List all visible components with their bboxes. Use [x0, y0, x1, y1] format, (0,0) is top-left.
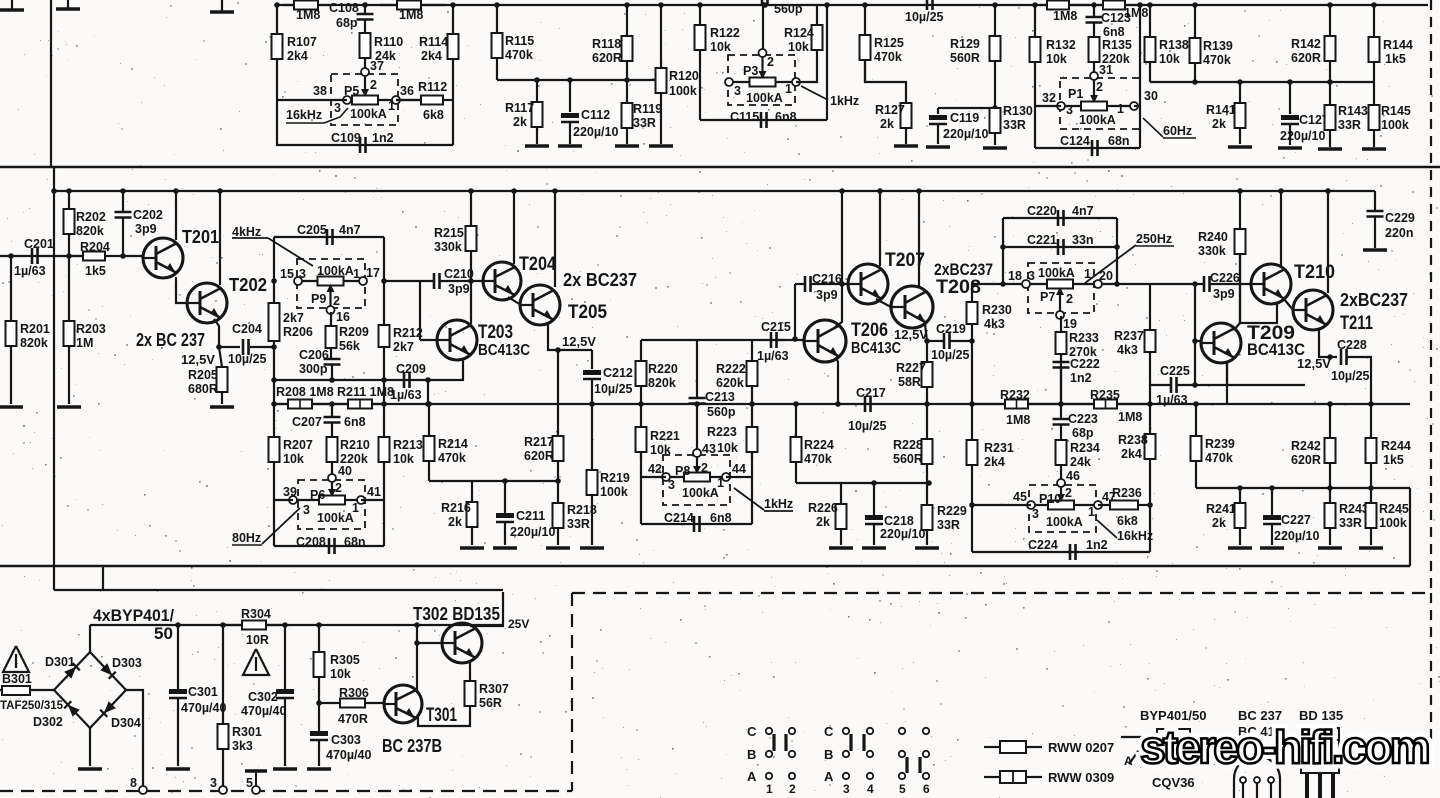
junction [1137, 2, 1143, 8]
junction [589, 401, 595, 407]
ground [915, 546, 939, 550]
svg-text:2: 2 [333, 294, 340, 308]
svg-text:A: A [747, 769, 757, 784]
capacitor C303 [310, 731, 371, 762]
ground [829, 546, 853, 550]
wire R226 col [840, 483, 842, 504]
svg-text:R212: R212 [393, 326, 423, 340]
potentiometer P3 [725, 49, 800, 105]
wire C227 gnd [1271, 524, 1273, 545]
junction [220, 622, 226, 628]
resistor R236 6k8 [1098, 486, 1150, 528]
junction [1147, 2, 1153, 8]
top feed wire 3 [221, 0, 223, 11]
svg-text:RWW 0207: RWW 0207 [1048, 740, 1114, 755]
wire P10 left rail low [971, 505, 973, 552]
junction [534, 77, 540, 83]
svg-text:3p9: 3p9 [135, 222, 157, 236]
svg-text:10k: 10k [330, 667, 351, 681]
label T302 BD135 [413, 604, 500, 624]
resistor R229 33R [922, 483, 967, 545]
resistor R222 620k [716, 340, 758, 404]
wire T203 emitter [428, 358, 463, 380]
power section top border [54, 589, 503, 591]
svg-text:R235: R235 [1090, 388, 1120, 402]
svg-text:16kHz: 16kHz [286, 108, 322, 122]
svg-text:470k: 470k [804, 452, 832, 466]
junction [877, 188, 883, 194]
potentiometer P7 [1008, 263, 1113, 331]
svg-text:2k7: 2k7 [393, 340, 414, 354]
capacitor C127 [1280, 113, 1329, 143]
svg-text:37: 37 [370, 59, 384, 73]
resistor R238 2k4 [1118, 404, 1156, 461]
svg-text:C205: C205 [297, 223, 327, 237]
junction [567, 77, 573, 83]
junction [282, 622, 288, 628]
svg-text:56k: 56k [339, 339, 360, 353]
svg-text:R201: R201 [20, 322, 50, 336]
svg-text:R210: R210 [340, 438, 370, 452]
ground [546, 546, 570, 550]
wire C218 gnd [873, 524, 875, 545]
resistor R119 33R [622, 102, 663, 144]
svg-text:R243: R243 [1339, 502, 1369, 516]
transistor T301 [384, 685, 457, 726]
svg-text:560p: 560p [774, 2, 803, 16]
resistor R127 2k [875, 103, 912, 144]
junction [697, 2, 703, 8]
junction [992, 2, 998, 8]
capacitor C213 [689, 390, 736, 419]
svg-text:68n: 68n [1108, 134, 1130, 148]
capacitor C214 [664, 511, 732, 532]
wire C119 gnd [937, 124, 939, 144]
capacitor C108 [329, 1, 374, 30]
label D303 [112, 656, 142, 670]
junction [1193, 401, 1199, 407]
capacitor C109 [331, 131, 394, 153]
svg-text:R219: R219 [600, 471, 630, 485]
svg-text:4kHz: 4kHz [232, 225, 261, 239]
svg-text:R207: R207 [283, 438, 313, 452]
wire C223 stem [1060, 404, 1062, 419]
svg-text:R223: R223 [707, 425, 737, 439]
svg-text:C214: C214 [664, 511, 694, 525]
svg-text:R227: R227 [896, 361, 926, 375]
transistor T209 [1201, 323, 1305, 363]
svg-text:620R: 620R [592, 51, 622, 65]
svg-text:470µ/40: 470µ/40 [181, 701, 226, 715]
svg-text:220n: 220n [1385, 226, 1414, 240]
transistor T302 [442, 623, 482, 663]
svg-text:R135: R135 [1102, 38, 1132, 52]
svg-text:24k: 24k [1070, 455, 1091, 469]
wire C220 rail right [1116, 218, 1118, 284]
resistor R208 1M8 [274, 385, 334, 409]
svg-text:B301: B301 [2, 672, 32, 686]
wire C123 to R135 [1093, 23, 1095, 37]
resistor R245 100k [1366, 488, 1409, 545]
svg-text:33n: 33n [1072, 233, 1094, 247]
svg-text:C303: C303 [331, 733, 361, 747]
ground [307, 767, 331, 771]
resistor R306 470R [319, 686, 384, 726]
ground [56, 7, 80, 11]
svg-text:R130: R130 [1003, 104, 1033, 118]
svg-text:100kA: 100kA [317, 264, 354, 278]
wire P3 right rail [826, 5, 828, 120]
resistor R305 10k [314, 625, 360, 703]
svg-text:R306: R306 [339, 686, 369, 700]
wire R301 col [222, 625, 224, 724]
wire P7 left rail [971, 284, 973, 404]
wire C202 bottom [122, 218, 124, 256]
svg-text:stereo-hifi.com: stereo-hifi.com [1140, 721, 1429, 773]
svg-text:100kA: 100kA [1079, 113, 1116, 127]
junction [658, 2, 664, 8]
capacitor C114 560p [762, 0, 803, 16]
wire C206 bottom [331, 365, 333, 380]
svg-text:19: 19 [1063, 317, 1077, 331]
resistor R117 2k [505, 101, 543, 144]
wire T211 emitter [1319, 329, 1337, 357]
ground [1359, 546, 1383, 550]
resistor R237 4k3 [1114, 284, 1156, 404]
transistor T207 [848, 250, 925, 304]
svg-text:5: 5 [899, 782, 906, 796]
capacitor C223 [1053, 412, 1098, 440]
wire P5 right [396, 99, 420, 101]
wire T211 collector [1327, 191, 1329, 293]
junction [271, 401, 277, 407]
resistor R205 680R [188, 367, 228, 404]
capacitor C115 6n8 [730, 110, 797, 128]
wire C212 bottom [591, 379, 593, 404]
svg-text:C217: C217 [856, 386, 886, 400]
transistor T208 [891, 277, 981, 328]
svg-text:T206: T206 [851, 320, 888, 341]
wire T302 collector [470, 592, 503, 626]
resistor R134 1M8 [1098, 1, 1148, 21]
capacitor C225 [1156, 364, 1190, 407]
svg-text:100kA: 100kA [317, 511, 354, 525]
transistor T210 [1251, 262, 1335, 304]
junction [555, 478, 561, 484]
label 16kHz [286, 108, 348, 123]
junction [216, 344, 222, 350]
svg-text:2x BC 237: 2x BC 237 [136, 330, 205, 350]
junction [839, 188, 845, 194]
ground [493, 546, 517, 550]
resistor R118 620R [592, 5, 633, 80]
svg-text:1µ/63: 1µ/63 [757, 349, 789, 363]
resistor R215 330k [434, 191, 477, 254]
wire P9 right rail [383, 237, 385, 404]
junction [624, 77, 630, 83]
wire output sub-bus [497, 79, 656, 81]
potentiometer P1 [1042, 72, 1158, 129]
potentiometer P5 [313, 68, 414, 125]
svg-text:12,5V: 12,5V [181, 352, 215, 367]
junction [969, 502, 975, 508]
capacitor C227 [1263, 513, 1319, 543]
svg-text:620R: 620R [524, 449, 554, 463]
svg-text:10µ/25: 10µ/25 [228, 352, 267, 366]
bridge rectifier 4xBYP401/50 [54, 652, 126, 728]
junction [66, 188, 72, 194]
svg-text:1n2: 1n2 [1070, 371, 1092, 385]
transistor T203 [437, 320, 530, 360]
junction [871, 480, 877, 486]
junction [274, 2, 280, 8]
svg-text:3: 3 [843, 782, 850, 796]
svg-text:R217: R217 [524, 435, 554, 449]
svg-text:A: A [824, 769, 834, 784]
capacitor C204 [228, 322, 267, 366]
label 12.5V input [181, 352, 215, 367]
svg-text:33R: 33R [1338, 118, 1361, 132]
wire C207 stem [331, 404, 333, 417]
svg-text:50: 50 [154, 624, 173, 643]
svg-text:2: 2 [1065, 486, 1072, 500]
wire T302 base [417, 642, 443, 644]
wire C210 lead [384, 280, 434, 282]
svg-text:C302: C302 [248, 690, 278, 704]
junction [824, 2, 830, 8]
svg-text:2xBC237: 2xBC237 [1340, 290, 1408, 310]
svg-text:R232: R232 [1000, 388, 1030, 402]
svg-text:3: 3 [1032, 507, 1039, 521]
junction [1269, 485, 1275, 491]
svg-text:100kA: 100kA [1046, 515, 1083, 529]
svg-text:R115: R115 [505, 34, 534, 48]
mid feedback bus [274, 403, 1410, 405]
resistor R139 470k [1190, 5, 1233, 82]
wire T202 emitter [214, 319, 219, 347]
svg-text:300p: 300p [299, 362, 328, 376]
junction [749, 401, 755, 407]
svg-text:R202: R202 [76, 210, 106, 224]
capacitor C224 [1028, 538, 1108, 560]
legend BD135 package [1299, 708, 1343, 798]
junction [1287, 79, 1293, 85]
junction [329, 377, 335, 383]
wire T210 collector [1280, 191, 1282, 267]
svg-text:R138: R138 [1159, 38, 1189, 52]
ground [78, 767, 102, 771]
svg-text:470k: 470k [1205, 451, 1233, 465]
ground [1260, 546, 1284, 550]
wire C114 down [762, 2, 764, 49]
svg-text:1µ/63: 1µ/63 [14, 264, 46, 278]
junction [926, 480, 932, 486]
svg-text:6n8: 6n8 [710, 511, 732, 525]
resistor R131 1M8 [1040, 1, 1090, 24]
wire T208 emitter [925, 324, 927, 341]
wire R141 col [1239, 82, 1241, 103]
legend BC237/BC413 package [1234, 708, 1282, 798]
svg-text:2: 2 [370, 78, 377, 92]
svg-text:36: 36 [400, 84, 414, 98]
resistor R239 470k [1191, 404, 1235, 488]
wire C229 bottom [1374, 217, 1376, 248]
junction [694, 401, 700, 407]
resistor R241 2k [1206, 502, 1246, 545]
label 12.5V second [562, 334, 596, 349]
svg-text:10k: 10k [1046, 52, 1067, 66]
svg-text:R107: R107 [287, 35, 317, 49]
junction [316, 622, 322, 628]
svg-text:8: 8 [130, 776, 137, 790]
label 12.5V output [1297, 356, 1331, 371]
junction [316, 700, 322, 706]
capacitor C301 [169, 685, 226, 715]
svg-text:220µ/10: 220µ/10 [573, 125, 618, 139]
svg-text:P1: P1 [1068, 87, 1083, 101]
wire R110 to node 37 [364, 58, 366, 70]
node 8 [130, 776, 147, 794]
switch contact group 1-2 [747, 724, 796, 796]
svg-text:D302: D302 [33, 715, 63, 729]
label 60Hz [1143, 118, 1196, 138]
svg-text:68n: 68n [344, 535, 366, 549]
resistor R206 2k7 [269, 303, 313, 341]
svg-text:P10: P10 [1039, 492, 1061, 506]
right dashed border [1430, 0, 1432, 594]
svg-text:R234: R234 [1070, 441, 1100, 455]
transistor T211 [1293, 290, 1373, 334]
svg-text:T208: T208 [936, 277, 981, 298]
resistor R232 1M8 [972, 388, 1061, 427]
svg-text:R236: R236 [1112, 486, 1142, 500]
svg-text:220µ/10: 220µ/10 [1280, 129, 1325, 143]
watermark stereo-hifi.com [1140, 721, 1429, 773]
wire bridge top [89, 625, 91, 654]
svg-text:R208 1M8: R208 1M8 [276, 385, 334, 399]
wire T210 emitter to T209 [1240, 302, 1277, 323]
wire R215 to T204 base node [470, 251, 472, 324]
junction [924, 401, 930, 407]
svg-text:1µ/63: 1µ/63 [1156, 393, 1188, 407]
wire C227 col [1271, 488, 1273, 515]
wire P8 right rail low [751, 453, 753, 524]
svg-text:2k4: 2k4 [421, 49, 442, 63]
resistor R108 1M8 [283, 1, 330, 23]
svg-text:39: 39 [283, 485, 297, 499]
svg-text:P3: P3 [743, 64, 758, 78]
wire C224 row [972, 551, 1150, 553]
wire C214 row [641, 523, 752, 525]
svg-text:1M8: 1M8 [296, 8, 320, 22]
svg-text:1: 1 [1088, 505, 1095, 519]
wire P8 right [726, 476, 752, 478]
wire T207 collector [879, 191, 881, 266]
wire C221 row [1003, 246, 1117, 248]
wire C204 row [219, 346, 240, 348]
svg-text:680R: 680R [188, 382, 218, 396]
label 1kHz mid [734, 488, 793, 511]
label D302 [33, 715, 63, 729]
junction [468, 278, 474, 284]
svg-text:1M: 1M [76, 336, 93, 350]
junction [271, 344, 277, 350]
svg-text:2k4: 2k4 [984, 455, 1005, 469]
resistor R122 10k [695, 25, 740, 54]
svg-text:1kHz: 1kHz [830, 94, 859, 108]
top band left border [50, 0, 52, 167]
ground [983, 146, 1007, 150]
node 46 [1066, 469, 1080, 483]
svg-text:R237: R237 [1114, 329, 1144, 343]
junction [839, 281, 845, 287]
svg-text:43: 43 [702, 442, 716, 456]
svg-text:R206: R206 [283, 325, 313, 339]
wire C218 col [873, 483, 875, 515]
svg-text:33R: 33R [937, 518, 960, 532]
resistor R234 24k [1056, 440, 1100, 481]
wire C220 row [1003, 217, 1117, 219]
svg-text:68p: 68p [336, 16, 358, 30]
capacitor C210 [434, 267, 474, 296]
junction [1147, 401, 1153, 407]
ground [166, 767, 190, 771]
svg-text:16kHz: 16kHz [1117, 529, 1153, 543]
svg-text:P9: P9 [311, 292, 326, 306]
svg-text:1k5: 1k5 [1383, 453, 1404, 467]
svg-text:10µ/25: 10µ/25 [848, 419, 887, 433]
wire T201 emitter to T202 base [176, 277, 187, 303]
ground [460, 546, 484, 550]
wire P3 bottom [700, 119, 827, 121]
wire T205 emitter down [548, 322, 592, 350]
svg-text:R142: R142 [1291, 37, 1321, 51]
label 12.5V third [894, 327, 928, 342]
svg-text:A: A [1124, 754, 1133, 768]
label D301 [45, 655, 75, 669]
svg-text:4: 4 [867, 782, 874, 796]
svg-text:R238: R238 [1118, 433, 1148, 447]
svg-text:P6: P6 [310, 488, 325, 502]
svg-text:3p9: 3p9 [448, 282, 470, 296]
wire C213 stem [696, 340, 698, 398]
junction [1000, 244, 1006, 250]
wire P3 right [796, 50, 817, 82]
svg-text:3: 3 [299, 267, 306, 281]
svg-text:470k: 470k [1203, 53, 1231, 67]
label 25V [508, 617, 529, 631]
label 1kHz top [801, 86, 859, 108]
svg-text:58R: 58R [898, 375, 921, 389]
svg-text:20: 20 [1099, 269, 1113, 283]
junction [1147, 502, 1153, 508]
junction [217, 188, 223, 194]
dashed border right lower [1430, 593, 1432, 740]
junction [450, 2, 456, 8]
resistor R114 2k4 [419, 34, 459, 63]
junction [362, 2, 368, 8]
resistor R202 820k [64, 191, 106, 256]
wire C204 to filter [250, 346, 274, 348]
junction [1368, 401, 1374, 407]
svg-text:6k8: 6k8 [1117, 514, 1138, 528]
svg-text:C215: C215 [761, 320, 791, 334]
resistor R142 620R [1291, 5, 1336, 82]
junction [381, 401, 387, 407]
svg-text:R240: R240 [1198, 230, 1228, 244]
wire T204 collector [513, 191, 515, 264]
wire P1 bottom [1035, 147, 1140, 149]
